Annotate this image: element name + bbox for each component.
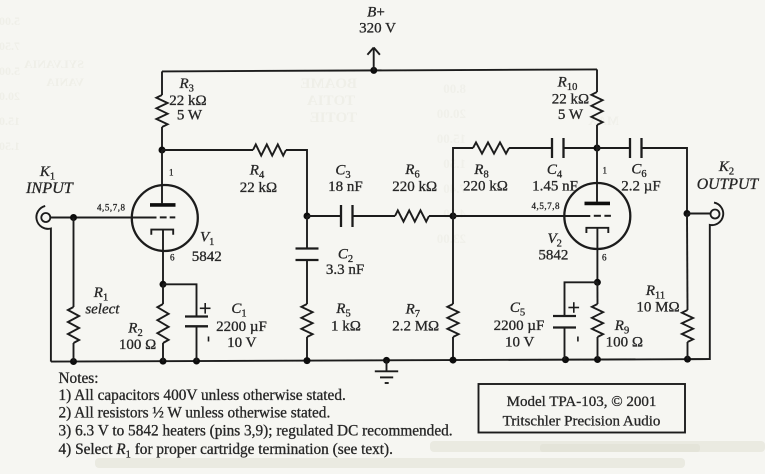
svg-text:SYLVANIA: SYLVANIA [24, 57, 84, 71]
svg-text:TOTIE: TOTIE [310, 110, 357, 126]
wire R10 bottom lead [596, 125, 598, 148]
tube V2 grid [594, 215, 611, 217]
node V2 grid junction [450, 213, 457, 220]
svg-text:1.50: 1.50 [443, 156, 466, 171]
svg-text:7.50: 7.50 [0, 39, 20, 53]
capacitor C2 [296, 249, 319, 261]
wire R2 bottom lead [162, 343, 164, 361]
wire C3 to R6 [353, 215, 396, 217]
svg-text:2.2 µF: 2.2 µF [621, 179, 661, 195]
connector K2 pin [711, 210, 720, 219]
svg-text:3.3 nF: 3.3 nF [326, 262, 364, 278]
svg-text:1) All capacitors 400V unless: 1) All capacitors 400V unless otherwise … [59, 387, 346, 404]
tube V1 grid [160, 216, 176, 218]
svg-text:MAX: MAX [587, 113, 619, 128]
svg-text:4,5,7,8: 4,5,7,8 [97, 203, 126, 213]
tube V1 plate [150, 203, 176, 207]
node rail junction at R7 [450, 357, 457, 364]
svg-text:5842: 5842 [192, 249, 222, 265]
ground symbol [375, 360, 398, 383]
wire R9 bottom lead [597, 337, 599, 360]
resistor R3 [156, 95, 167, 127]
tube V1 envelope [132, 185, 198, 251]
resistor R7 [447, 304, 458, 337]
svg-text:VANIA: VANIA [46, 75, 84, 89]
node C3/C2 junction [304, 213, 311, 220]
polarity tick of C1 [208, 337, 210, 342]
svg-text:100 Ω: 100 Ω [606, 335, 643, 351]
resistor R9 [592, 304, 603, 337]
node rail junction at C1 [193, 358, 200, 365]
node V1 grid input junction [70, 214, 77, 221]
node B+ tap junction [370, 67, 377, 74]
capacitor C1 [185, 317, 208, 327]
resistor R8 [473, 142, 509, 153]
wire R3 top lead [161, 71, 163, 95]
svg-text:6: 6 [602, 253, 607, 263]
connector K2 shell [688, 203, 724, 360]
wire R5 to ground rail [306, 337, 308, 361]
node output junction [684, 210, 691, 217]
polarity tick of C5 [577, 337, 579, 342]
node rail junction at R11 [684, 356, 691, 363]
wire cathode node to C1 [163, 284, 197, 316]
node rail junction at C5 [562, 356, 569, 363]
node rail junction at ground [383, 357, 390, 364]
tube V2 cathode [586, 228, 608, 233]
polarity + of C5 [568, 302, 579, 313]
svg-text:2.2 MΩ: 2.2 MΩ [392, 319, 439, 335]
capacitor C6 [630, 138, 642, 158]
wire V1 grid lead [51, 217, 157, 219]
svg-text:2200 µF: 2200 µF [494, 318, 545, 334]
wire V2 grid lead [453, 215, 590, 217]
node V2 cathode junction [594, 279, 601, 286]
svg-text:2) All resistors ½ W unless ot: 2) All resistors ½ W unless otherwise st… [59, 404, 331, 421]
node V1 plate junction [159, 147, 166, 154]
wire cathode to R2 [162, 284, 164, 304]
svg-text:5.00: 5.00 [0, 14, 20, 28]
svg-text:1 kΩ: 1 kΩ [331, 319, 361, 335]
tube V2 envelope [564, 183, 630, 249]
resistor R5 [301, 304, 312, 337]
svg-text:B+: B+ [367, 5, 385, 21]
svg-text:TOTIA: TOTIA [307, 93, 355, 109]
svg-text:select: select [85, 301, 120, 317]
resistor R1 [68, 307, 79, 343]
wire C6 to output node [642, 148, 688, 214]
node rail junction at R5 [304, 357, 311, 364]
scan ghost bleed-through text [0, 14, 619, 246]
capacitor C5 [553, 316, 576, 328]
wire C4 to plate node [564, 147, 598, 149]
svg-text:1.45 nF: 1.45 nF [532, 179, 578, 195]
connector K1 shell [36, 206, 51, 362]
svg-text:22 kΩ: 22 kΩ [552, 92, 589, 108]
wire ground rail [51, 359, 710, 362]
svg-text:BOAME: BOAME [300, 76, 357, 92]
wire R4 to C3 node [286, 150, 307, 216]
connector K1 pin [41, 213, 50, 222]
svg-text:6: 6 [170, 253, 175, 263]
resistor R10 [591, 92, 602, 125]
wire B+ top rail [162, 69, 597, 71]
wire C3 node to C2 [306, 216, 308, 249]
polarity + of C1 [200, 303, 211, 314]
svg-text:100 Ω: 100 Ω [119, 337, 156, 353]
svg-text:20.00: 20.00 [437, 106, 466, 121]
capacitor C4 [552, 138, 564, 158]
wire R1 bottom lead [73, 343, 75, 362]
svg-text:OUTPUT: OUTPUT [697, 176, 760, 193]
tube V1 cathode lead [162, 230, 164, 285]
svg-text:22 kΩ: 22 kΩ [240, 180, 277, 196]
wire R7 to ground rail [452, 337, 454, 360]
wire C2 to R5 [306, 260, 308, 304]
svg-text:10 MΩ: 10 MΩ [636, 300, 679, 316]
wire R8 line to vertical [453, 148, 473, 216]
wire R3 bottom lead [161, 127, 163, 150]
svg-text:5 W: 5 W [177, 108, 203, 124]
wire C1 bottom lead [196, 326, 198, 361]
svg-text:15.00: 15.00 [0, 114, 20, 128]
svg-text:INPUT: INPUT [25, 179, 74, 197]
wire R10 top lead [596, 69, 598, 92]
svg-text:5.00: 5.00 [0, 64, 20, 78]
wire R9 top lead [596, 282, 598, 304]
svg-text:Notes:: Notes: [59, 370, 99, 387]
svg-text:1.50: 1.50 [0, 139, 20, 153]
wire R11 top lead [686, 214, 689, 311]
wire cathode node to C5 [565, 282, 598, 316]
svg-text:5 W: 5 W [558, 107, 584, 123]
svg-text:Model TPA-103, © 2001: Model TPA-103, © 2001 [507, 394, 657, 410]
svg-text:20.00: 20.00 [0, 89, 20, 103]
title box frame [479, 384, 686, 433]
node rail junction at R2 [160, 358, 167, 365]
wire C6 left lead [597, 147, 630, 149]
wire R1 top lead [73, 218, 75, 308]
resistor R4 [253, 144, 286, 155]
svg-text:4) Select R1 for proper cartri: 4) Select R1 for proper cartridge termin… [59, 441, 393, 461]
capacitor C3 [341, 205, 353, 227]
svg-text:220 kΩ: 220 kΩ [392, 179, 437, 195]
wire R6 to grid node [429, 215, 453, 217]
resistor R11 [682, 310, 693, 342]
tube V2 plate [585, 202, 611, 206]
wire output node to K2 [687, 213, 711, 215]
wire C5 bottom lead [564, 328, 566, 360]
svg-text:10 V: 10 V [227, 335, 256, 351]
node rail junction at R1 [70, 358, 77, 365]
wire R11 bottom lead [687, 342, 689, 359]
svg-text:4,5,7,8: 4,5,7,8 [532, 201, 561, 211]
svg-text:1: 1 [169, 168, 174, 178]
power B+ arrow [367, 48, 380, 71]
tube V1 cathode [151, 230, 173, 235]
resistor R2 [157, 304, 168, 343]
wire R6/R7 node to R7 [452, 216, 454, 304]
node V1 cathode junction [160, 281, 167, 288]
svg-text:23.00: 23.00 [437, 231, 466, 246]
svg-text:15.00: 15.00 [437, 131, 466, 146]
svg-text:10 V: 10 V [505, 334, 534, 350]
node rail junction at R9 [594, 356, 601, 363]
resistor R6 [395, 210, 429, 221]
svg-text:8.00: 8.00 [443, 81, 466, 96]
wire R8 to C4 [509, 147, 552, 149]
svg-text:Tritschler Precision Audio: Tritschler Precision Audio [503, 414, 661, 430]
tube V1 plate lead [161, 150, 163, 203]
svg-text:3) 6.3 V to 5842 heaters (pins: 3) 6.3 V to 5842 heaters (pins 3,9); reg… [59, 423, 453, 440]
node V2 plate junction [594, 145, 601, 152]
tube V2 plate lead [596, 148, 598, 202]
svg-text:220 kΩ: 220 kΩ [463, 179, 508, 195]
wire to C3 left plate [307, 215, 341, 217]
svg-text:18 nF: 18 nF [328, 179, 363, 195]
svg-text:1: 1 [603, 166, 608, 176]
wire plate node to R4 [162, 149, 253, 151]
svg-text:320 V: 320 V [359, 21, 396, 37]
svg-text:2200 µF: 2200 µF [216, 319, 267, 335]
svg-text:5842: 5842 [538, 248, 568, 264]
tube V2 cathode lead [596, 228, 598, 282]
